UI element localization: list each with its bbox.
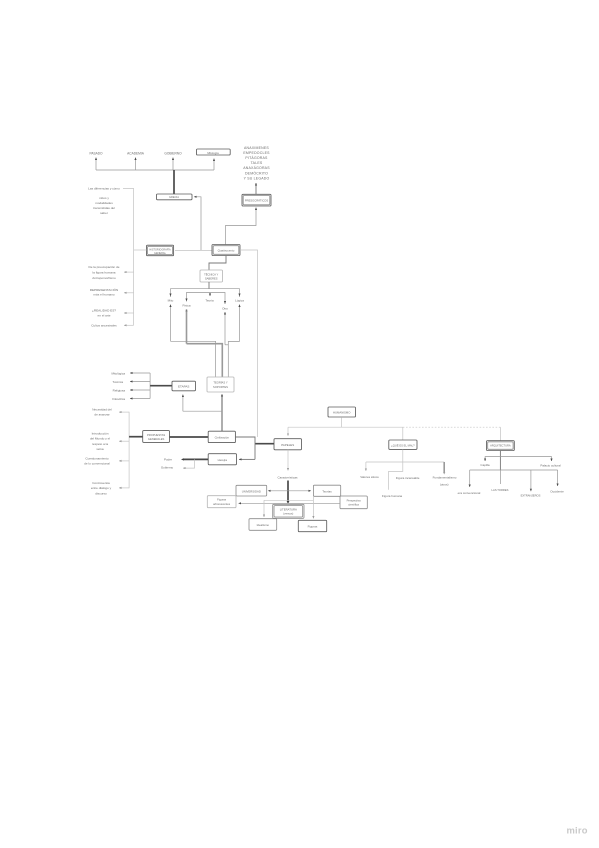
- svg-text:modalidades: modalidades: [95, 201, 113, 205]
- svg-text:Características: Características: [277, 476, 298, 480]
- svg-text:ETAPAS: ETAPAS: [178, 385, 189, 389]
- wire bus to GRECIA: [173, 170, 175, 194]
- wire gobierno dashed: [183, 459, 195, 468]
- box Civilizacion: [208, 431, 235, 442]
- node Necesidad: [92, 408, 112, 417]
- svg-text:Técnica: Técnica: [112, 380, 123, 384]
- svg-text:ANAXIMENES: ANAXIMENES: [244, 146, 269, 150]
- node Fundamentalismo: [433, 476, 457, 487]
- wire branch to papeles: [287, 427, 289, 436]
- svg-text:Mitología: Mitología: [207, 151, 219, 155]
- svg-text:Valores éticos: Valores éticos: [360, 475, 379, 479]
- svg-text:saber: saber: [100, 211, 108, 215]
- wire quattrocento long right drop: [240, 250, 258, 437]
- wire propuestas to civilizacion thick: [170, 436, 209, 438]
- svg-text:Quattrocento: Quattrocento: [218, 249, 235, 253]
- svg-text:PRESOCRÁTICOS: PRESOCRÁTICOS: [245, 199, 269, 203]
- node Cuestionamiento: [84, 457, 110, 466]
- node cultos: [91, 324, 117, 328]
- svg-text:Teoría: Teoría: [205, 299, 214, 303]
- svg-text:SABERES: SABERES: [205, 277, 218, 281]
- box QUE ES EL MAL: [389, 440, 417, 449]
- box HISTORIOGRAFIA GENERAL: [147, 245, 174, 256]
- wire mal to fundamentalismo: [443, 462, 445, 475]
- wire otro return: [225, 312, 228, 345]
- svg-text:Otro: Otro: [222, 307, 228, 311]
- wire civilizacion right junction: [235, 437, 255, 459]
- wire inner split bus: [187, 293, 226, 305]
- wire mito return loop: [171, 305, 216, 378]
- svg-text:EXTRANJEROS: EXTRANJEROS: [521, 494, 541, 498]
- box PRESOCRATICOS: [242, 194, 271, 206]
- svg-text:Poder: Poder: [164, 458, 172, 462]
- svg-text:PAPELES: PAPELES: [281, 443, 294, 447]
- svg-text:Teorías: Teorías: [322, 489, 332, 493]
- wire branch to mal: [402, 427, 404, 440]
- wire bus2 to las torres: [499, 470, 501, 484]
- svg-text:respeto a la: respeto a la: [92, 442, 108, 446]
- box GRECIA: [157, 194, 193, 200]
- box PAPELES: [274, 439, 302, 450]
- svg-text:PITÁGORAS: PITÁGORAS: [245, 156, 268, 160]
- box UNIVERSIDAD: [236, 485, 267, 496]
- wire caracteristicas to literatura thick: [287, 481, 290, 505]
- wire rail arrow realidad: [124, 312, 134, 314]
- wire arquitectura bus2: [470, 469, 558, 471]
- wire top bus: [96, 158, 214, 171]
- svg-text:la figura humana: la figura humana: [92, 270, 115, 274]
- node Las diferencias note: [88, 187, 120, 216]
- node Logica: [235, 299, 244, 303]
- wire left rail lower: [128, 412, 130, 489]
- svg-text:Palacio cultural: Palacio cultural: [540, 464, 561, 468]
- svg-text:Cuestionamiento: Cuestionamiento: [85, 457, 108, 461]
- wire papeles to caracteristicas: [287, 450, 289, 471]
- svg-text:Capilla: Capilla: [480, 463, 490, 467]
- node antropomorfismo: [89, 265, 120, 280]
- box ARQUITECTURA: [487, 441, 515, 451]
- wire humanismo bus: [288, 426, 500, 428]
- wire rail arrow cuestionamiento: [119, 460, 129, 462]
- wire bracket idealismo figuras: [264, 496, 313, 518]
- svg-text:científica: científica: [348, 503, 359, 507]
- svg-text:entre diálogo y: entre diálogo y: [91, 486, 112, 490]
- svg-text:de lo convencional: de lo convencional: [84, 462, 110, 466]
- wire rail to propuestas thick: [129, 436, 143, 438]
- svg-text:DEMÓCRITO: DEMÓCRITO: [245, 170, 268, 175]
- svg-text:PASADO: PASADO: [89, 152, 103, 156]
- svg-text:¿REALIDAD ES?: ¿REALIDAD ES?: [92, 309, 116, 313]
- node Fisica: [182, 304, 190, 308]
- svg-text:ACADEMIA: ACADEMIA: [127, 152, 145, 156]
- wire perspectiva to arborescentes arrow: [239, 502, 341, 504]
- svg-text:selva: selva: [96, 447, 104, 451]
- node GOBIERNO: [164, 152, 182, 156]
- svg-text:Filosófica: Filosófica: [112, 397, 125, 401]
- svg-text:EMPEDOCLES: EMPEDOCLES: [243, 151, 270, 155]
- node Palacio cultural: [540, 464, 561, 468]
- node Otro: [222, 307, 228, 311]
- wire bus2 to extranjeros: [530, 470, 532, 491]
- wire soportes to civilizacion: [221, 394, 223, 431]
- node era convencional: [458, 491, 481, 495]
- wire etapas to civilizacion riser: [183, 395, 222, 412]
- wire junction to papeles: [255, 443, 274, 445]
- svg-text:Lógica: Lógica: [235, 299, 244, 303]
- svg-text:Herejía: Herejía: [218, 458, 228, 462]
- svg-text:Occidente: Occidente: [550, 490, 564, 494]
- svg-text:era convencional: era convencional: [458, 491, 481, 495]
- svg-text:ANAXÁGORAS: ANAXÁGORAS: [243, 166, 270, 170]
- svg-text:HUMANISMO: HUMANISMO: [333, 411, 351, 415]
- svg-text:SOPORTES: SOPORTES: [213, 385, 228, 389]
- node PASADO: [89, 152, 103, 156]
- wire arquitectura bus1: [485, 457, 551, 461]
- wire tecnica down: [208, 282, 210, 289]
- box TECNICA Y SABERES: [200, 270, 223, 282]
- svg-text:Mitológica: Mitológica: [111, 371, 125, 375]
- wire fisica return loop thick: [185, 309, 222, 377]
- wire mal to valores: [365, 462, 367, 471]
- wire mal to figura incansable: [389, 462, 403, 490]
- wire mal bus: [366, 461, 444, 463]
- wire herejia to poder arrow: [181, 458, 208, 460]
- node presocratic names list: [243, 146, 270, 181]
- svg-text:de avanzar: de avanzar: [94, 413, 109, 417]
- wire historiografia to quattrocento: [175, 250, 212, 252]
- box HUMANISMO: [328, 407, 356, 417]
- node EXTRANJEROS: [521, 494, 541, 498]
- svg-text:Gobierno: Gobierno: [161, 466, 174, 470]
- wire branch to arquitectura: [499, 427, 501, 441]
- wire outer split bus: [171, 289, 240, 297]
- box PROPUESTAS GENERALES: [143, 431, 170, 443]
- svg-text:Cultos ancestrales: Cultos ancestrales: [91, 324, 117, 328]
- box LITERATURA: [273, 504, 304, 518]
- node Figura humana: [382, 494, 403, 498]
- wire rail arrow antropomorfismo: [124, 271, 134, 273]
- svg-text:mitos y: mitos y: [99, 196, 109, 200]
- wire logica return loop: [228, 305, 239, 378]
- svg-text:Mito: Mito: [168, 299, 174, 303]
- svg-text:arborescentes: arborescentes: [213, 502, 231, 506]
- wire etapas bracket: [130, 373, 172, 399]
- svg-text:Civilización: Civilización: [215, 436, 230, 440]
- svg-text:más el humano: más el humano: [93, 293, 114, 297]
- node Filosofica: [112, 397, 125, 401]
- wire quattrocento to tecnica: [209, 256, 226, 271]
- svg-text:GRECIA: GRECIA: [169, 195, 179, 199]
- node Controversia: [91, 481, 112, 495]
- svg-text:miro: miro: [567, 825, 588, 836]
- svg-text:De la preocupación de: De la preocupación de: [89, 265, 120, 269]
- wire rail arrow necesidad: [119, 411, 129, 413]
- node Mitologica: [111, 371, 125, 375]
- svg-text:ARQUITECTURA: ARQUITECTURA: [490, 444, 511, 448]
- wire rail arrow cultos: [124, 324, 134, 326]
- node Valores eticos: [360, 475, 379, 479]
- svg-text:Figuras: Figuras: [308, 525, 318, 529]
- svg-text:(versos): (versos): [283, 512, 293, 516]
- node representacion: [90, 287, 118, 297]
- box Perspectiva cientifica: [340, 496, 367, 509]
- svg-text:discurso: discurso: [95, 491, 107, 495]
- node realidad: [92, 309, 116, 318]
- node Introduccion: [90, 432, 110, 452]
- svg-text:Las diferencias y cómo: Las diferencias y cómo: [88, 187, 120, 191]
- box Teorias: [313, 485, 340, 496]
- svg-text:Controversia: Controversia: [92, 481, 110, 485]
- node Caracteristicas: [277, 476, 298, 480]
- box ETAPAS: [172, 381, 196, 391]
- wire bus2 to era convencional: [469, 470, 471, 487]
- svg-text:Física: Física: [182, 304, 190, 308]
- svg-text:Figura humana: Figura humana: [382, 494, 403, 498]
- svg-text:TEORÍAS Y: TEORÍAS Y: [213, 381, 227, 385]
- node Gobierno: [161, 466, 174, 470]
- node Teoria: [205, 299, 214, 303]
- box Quattrocento: [212, 245, 240, 256]
- svg-text:(otros): (otros): [440, 483, 449, 487]
- svg-text:Religiosa: Religiosa: [113, 388, 126, 392]
- wire humanismo drop: [341, 418, 343, 428]
- svg-text:Figuras: Figuras: [217, 498, 227, 502]
- svg-text:TALES: TALES: [251, 161, 263, 165]
- node Religiosa: [113, 388, 126, 392]
- node miro watermark: [567, 825, 588, 836]
- svg-text:PROPUESTAS: PROPUESTAS: [147, 433, 165, 437]
- svg-text:GOBIERNO: GOBIERNO: [164, 152, 182, 156]
- node ACADEMIA: [127, 152, 145, 156]
- svg-text:Fundamentalismo: Fundamentalismo: [433, 476, 457, 480]
- wire left rail upper: [123, 189, 134, 326]
- wire junction to herejia arrow: [239, 458, 255, 460]
- wire rail arrow representacion: [124, 292, 134, 294]
- wire rail arrow controversia: [119, 487, 129, 489]
- svg-text:Y SU LEGADO: Y SU LEGADO: [244, 176, 270, 180]
- svg-text:LITERATURA: LITERATURA: [280, 507, 297, 511]
- node Figura incansable: [396, 476, 420, 480]
- svg-text:Antropomorfismo: Antropomorfismo: [92, 276, 116, 280]
- svg-text:Figura incansable: Figura incansable: [396, 476, 420, 480]
- svg-text:transmitidas del: transmitidas del: [93, 206, 115, 210]
- svg-text:LAS TORRES: LAS TORRES: [492, 488, 509, 492]
- wire riser to GRECIA: [194, 197, 201, 250]
- wire universidad teorias double arrow: [268, 490, 311, 492]
- wire rail arrow introduccion: [119, 440, 129, 442]
- wire arquitectura down thick: [499, 451, 501, 471]
- svg-text:HISTORIOGRAFÍA: HISTORIOGRAFÍA: [149, 248, 171, 251]
- svg-text:REPRESENTACIÓN: REPRESENTACIÓN: [90, 287, 118, 292]
- node Mito: [168, 299, 174, 303]
- box Idealismo: [249, 519, 277, 531]
- box Figuras: [298, 520, 326, 531]
- box Herejia: [208, 454, 236, 465]
- svg-text:Idealismo: Idealismo: [257, 523, 270, 527]
- svg-text:GENERALES: GENERALES: [148, 437, 165, 441]
- svg-text:UNIVERSIDAD: UNIVERSIDAD: [242, 489, 261, 493]
- wire mal drop: [402, 449, 404, 462]
- wire PRESOCRATICOS to names: [255, 183, 257, 194]
- wire Quattrocento to PRESOCRATICOS: [226, 208, 257, 245]
- svg-text:Perspectiva: Perspectiva: [347, 498, 362, 502]
- svg-text:del Mundo y el: del Mundo y el: [90, 437, 110, 441]
- node Poder: [164, 458, 172, 462]
- svg-text:en el arte: en el arte: [98, 313, 111, 317]
- svg-text:GENERAL: GENERAL: [154, 252, 167, 255]
- box TEORIAS Y SOPORTES: [207, 377, 234, 392]
- box Figuras arborescentes: [207, 496, 236, 508]
- wire bus2 to occidente: [557, 470, 559, 486]
- svg-text:Introducción: Introducción: [92, 432, 109, 436]
- node Occidente: [550, 490, 564, 494]
- svg-text:Necesidad del: Necesidad del: [92, 408, 112, 412]
- node Capilla: [480, 463, 490, 467]
- box Mitologia: [197, 149, 231, 155]
- wire rail to historiografia: [134, 249, 147, 251]
- node LAS TORRES: [492, 488, 509, 492]
- node Tecnica item: [112, 380, 123, 384]
